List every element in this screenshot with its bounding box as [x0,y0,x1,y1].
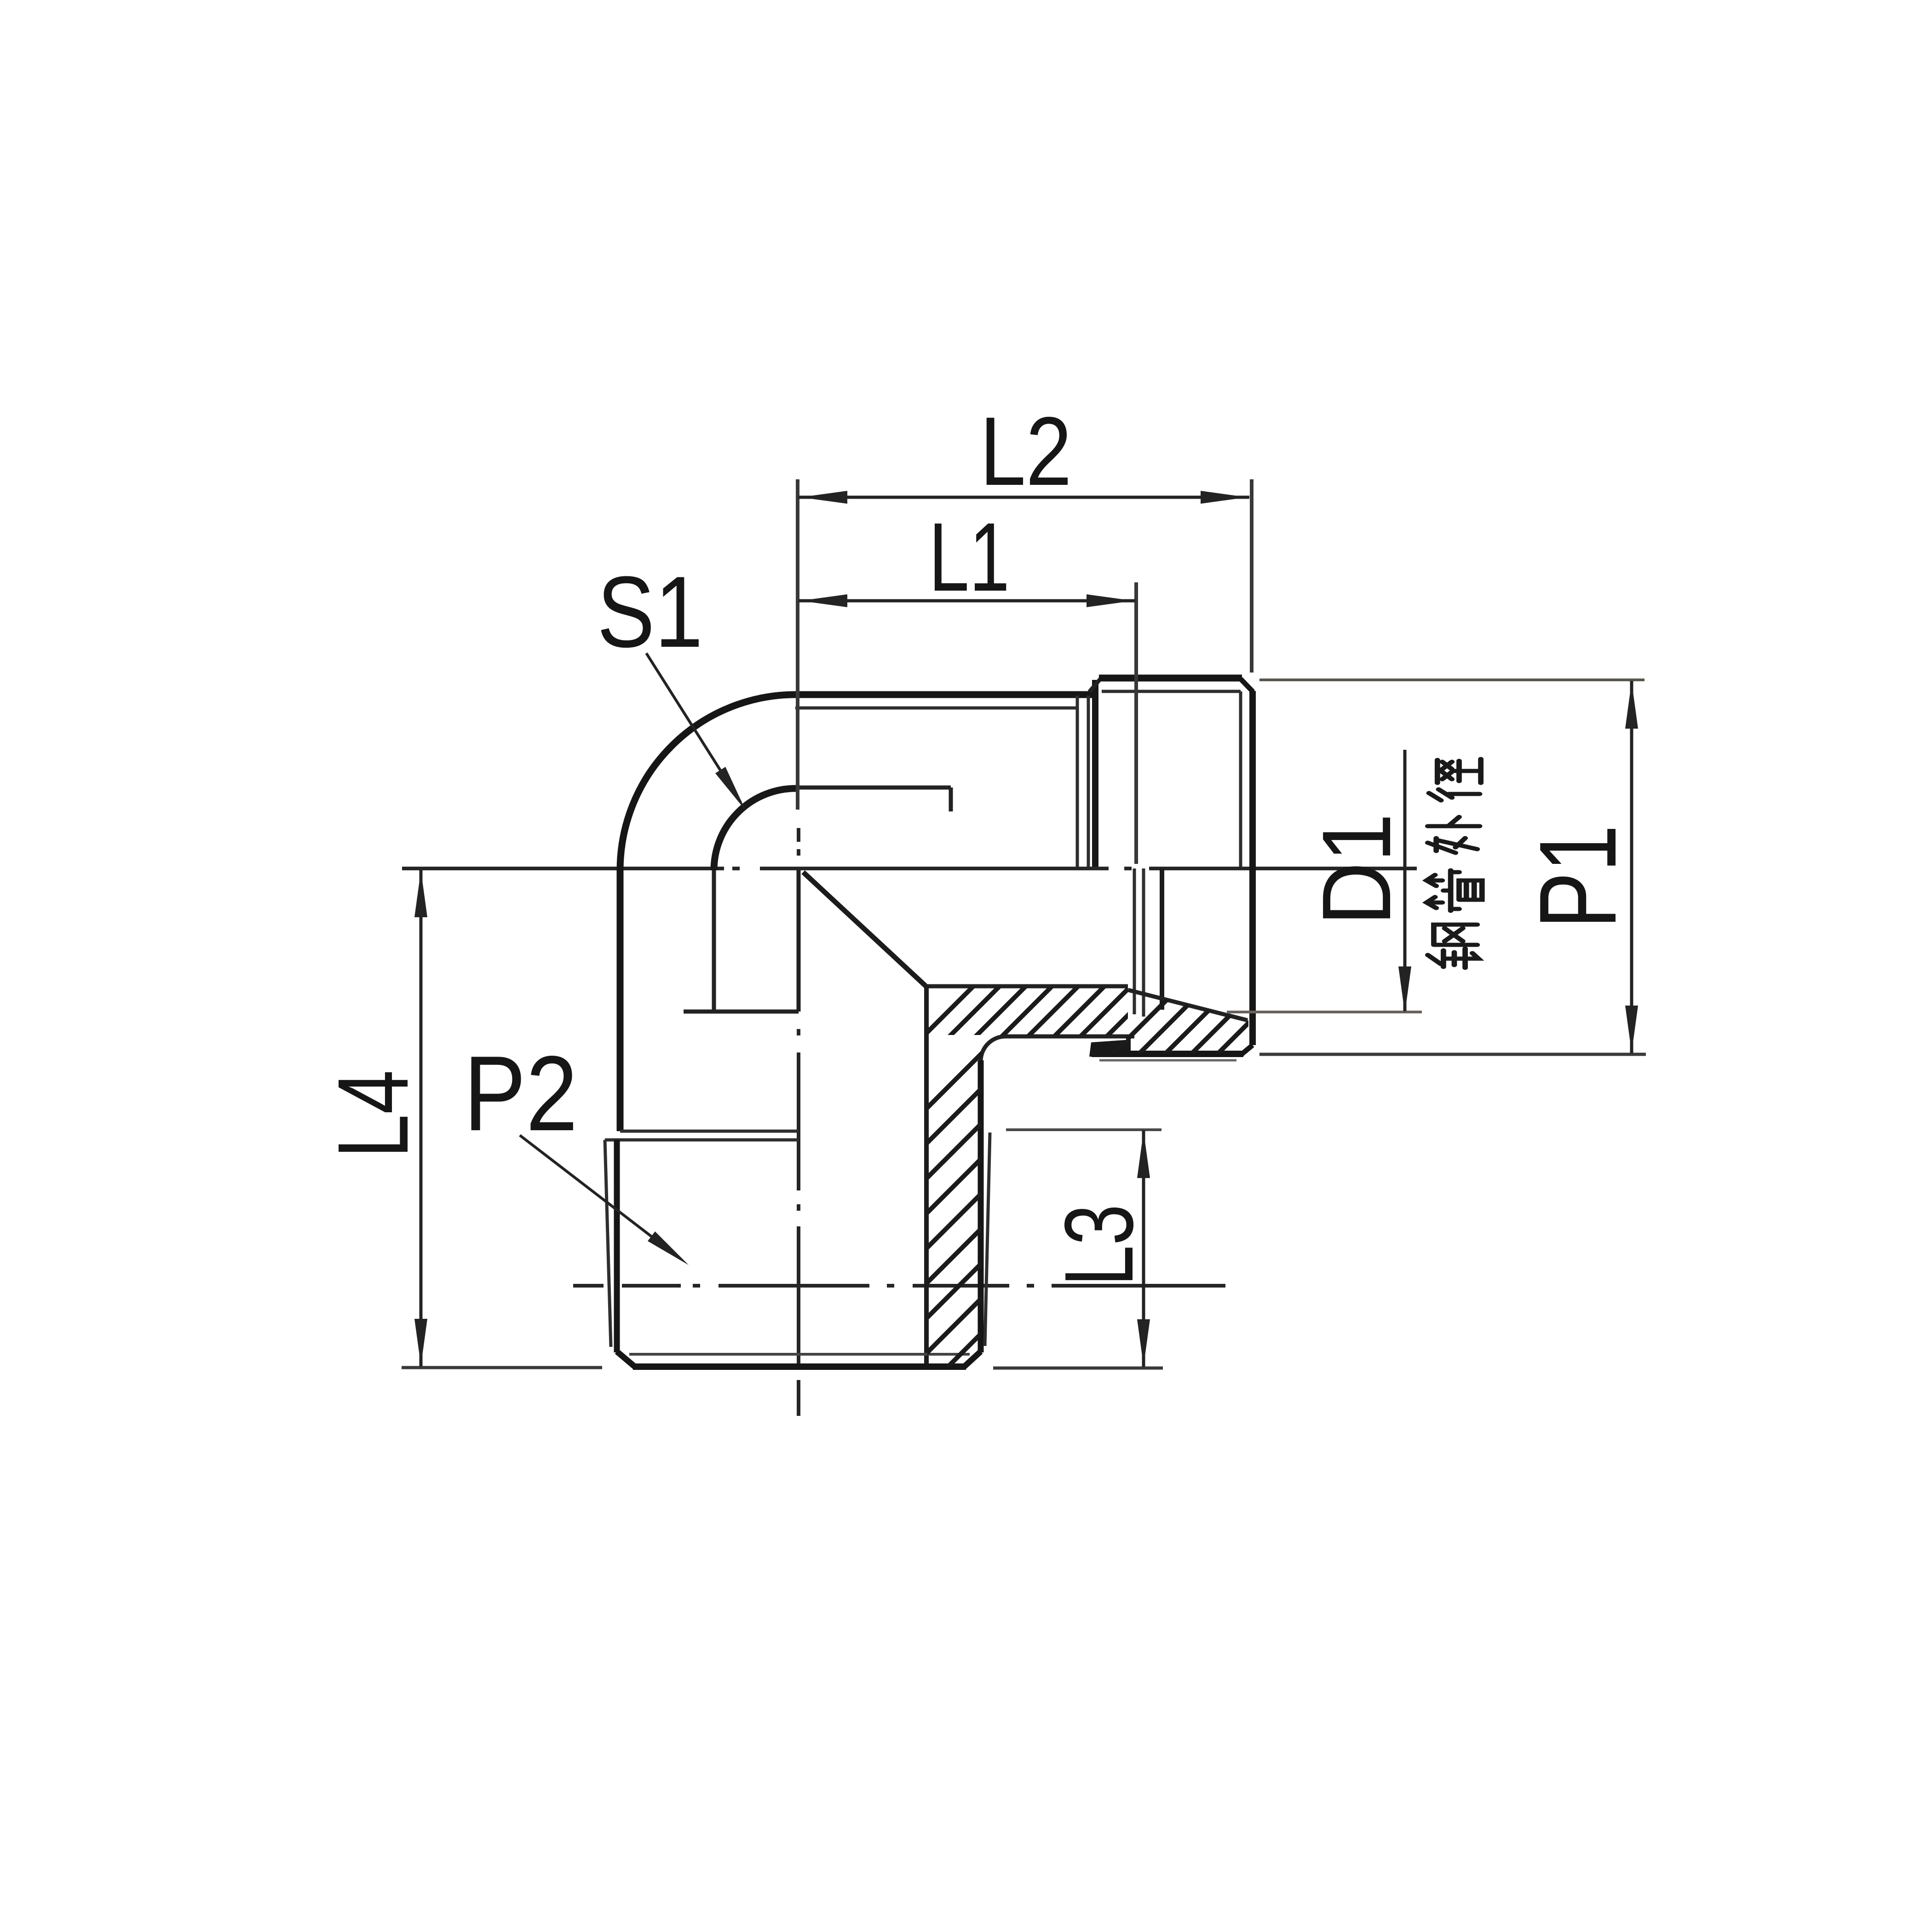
dimension line L2 with arrows [799,496,1249,499]
body: right-port bore line with end tick [796,786,951,790]
bottom port: shoulder line lower (thin) [605,1138,799,1142]
hatching: under right stud [1095,957,1498,1072]
extension line: L3 top [1006,1128,1161,1131]
right stud: bottom-right chamfer [1242,1045,1253,1054]
dimension line D1 with bottom arrow [1403,750,1407,1011]
body: left edge of vertical arm [617,868,624,1131]
right stud: thread runout double lines [1076,696,1079,867]
label 钢管外径 (steel pipe OD, rotated column) [1426,759,1482,968]
bottom port: thin line above end face [629,1353,970,1356]
extension line: L1/L2 left [796,479,799,810]
body: bottom-port bore line (vertical) [712,870,716,1012]
svg-text:D1: D1 [1302,813,1411,926]
right stud: top edge [1099,675,1242,682]
right stud: top-left chamfer [1089,679,1100,692]
extension line: D1 bottom [1227,1011,1422,1013]
right stud: top-right chamfer [1241,679,1253,692]
bottom port: shoulder line upper [620,1130,799,1133]
dimension line P1 with arrows [1630,681,1633,1053]
body: solid segment of axis through elbow centre [797,869,801,1012]
right stud: inner right vertical (thin) [1239,691,1242,867]
body: section diagonal from elbow centre [803,872,926,986]
bottom port: bottom end face [633,1363,966,1370]
extension line: L4 bottom [402,1366,602,1369]
bottom-port horizontal centerline [573,1284,604,1288]
bottom port: right thread crest taper [985,1133,990,1346]
section: bore bottom line of right port [1006,1035,1134,1039]
section: inner corner fillet [981,1036,1006,1061]
right stud: internal bore double lines below axis [1133,868,1136,1014]
right stud: faint line under bottom edge [1099,1059,1236,1062]
leader P2 with arrow [520,1135,681,1259]
right stud: internal thread end line [1160,868,1164,1010]
dimension line L4 with arrows [420,869,423,1367]
extension line: P1 top [1259,678,1644,681]
svg-text:L2: L2 [980,397,1072,506]
extension line: L2 right [1250,479,1253,673]
body: thin inner line under top edge [795,707,1077,710]
body: top edge of right arm [793,691,1095,698]
body: bottom-port bore end line [684,1010,799,1014]
extension line: L3 bottom [993,1367,1163,1370]
hatching: lower wall of right arm [902,966,1387,1058]
svg-text:S1: S1 [597,555,703,668]
extension line: L1 right [1134,582,1138,864]
svg-text:L1: L1 [929,502,1010,611]
right stud: right end face [1249,691,1256,1045]
right stud: tapered lower thread line [1128,990,1248,1020]
svg-text:L3: L3 [1044,1204,1153,1286]
bottom port: right bottom chamfer [964,1351,981,1367]
right stud: thin crest line [1102,690,1241,693]
bottom port: left thread edge [614,1140,620,1352]
section: top line of lower wall [926,984,1128,989]
bottom port: sectioned wall inner edge [924,986,929,1366]
bottom port: left thread crest taper [605,1140,611,1347]
leader S1 with arrow [646,653,741,802]
svg-text:L4: L4 [317,1070,429,1158]
hatching: sectioned wall of bottom port [911,1037,998,1544]
bottom port: left bottom chamfer [617,1351,635,1367]
body: inner elbow arc [714,788,796,870]
svg-text:P1: P1 [1517,825,1639,929]
extension line: P1 bottom [1259,1053,1646,1056]
bottom port: sectioned wall outer edge [978,1060,984,1352]
right stud: bottom edge [1092,1051,1243,1057]
right stud: lower-left chamfer wedge [1089,1040,1131,1057]
horizontal centerline (right-port axis) [402,867,724,870]
vertical centerline (bottom-port axis) [797,828,800,842]
body: outer elbow arc [620,695,796,870]
svg-text:P2: P2 [464,1034,578,1153]
dimension line L1 with arrows [799,599,1135,603]
dimension line L3 with arrows [1142,1130,1145,1367]
right stud: flange left edge [1092,680,1098,867]
